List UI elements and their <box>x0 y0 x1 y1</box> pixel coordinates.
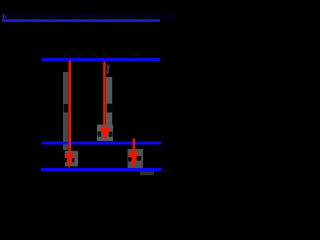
svg-text:1s2: 1s2 <box>153 146 164 153</box>
svg-text:1s: 1s <box>164 169 170 175</box>
svg-text:commons.wikimedia.org/wiki/Fil: commons.wikimedia.org/wiki/File:Neon_las… <box>3 13 173 20</box>
